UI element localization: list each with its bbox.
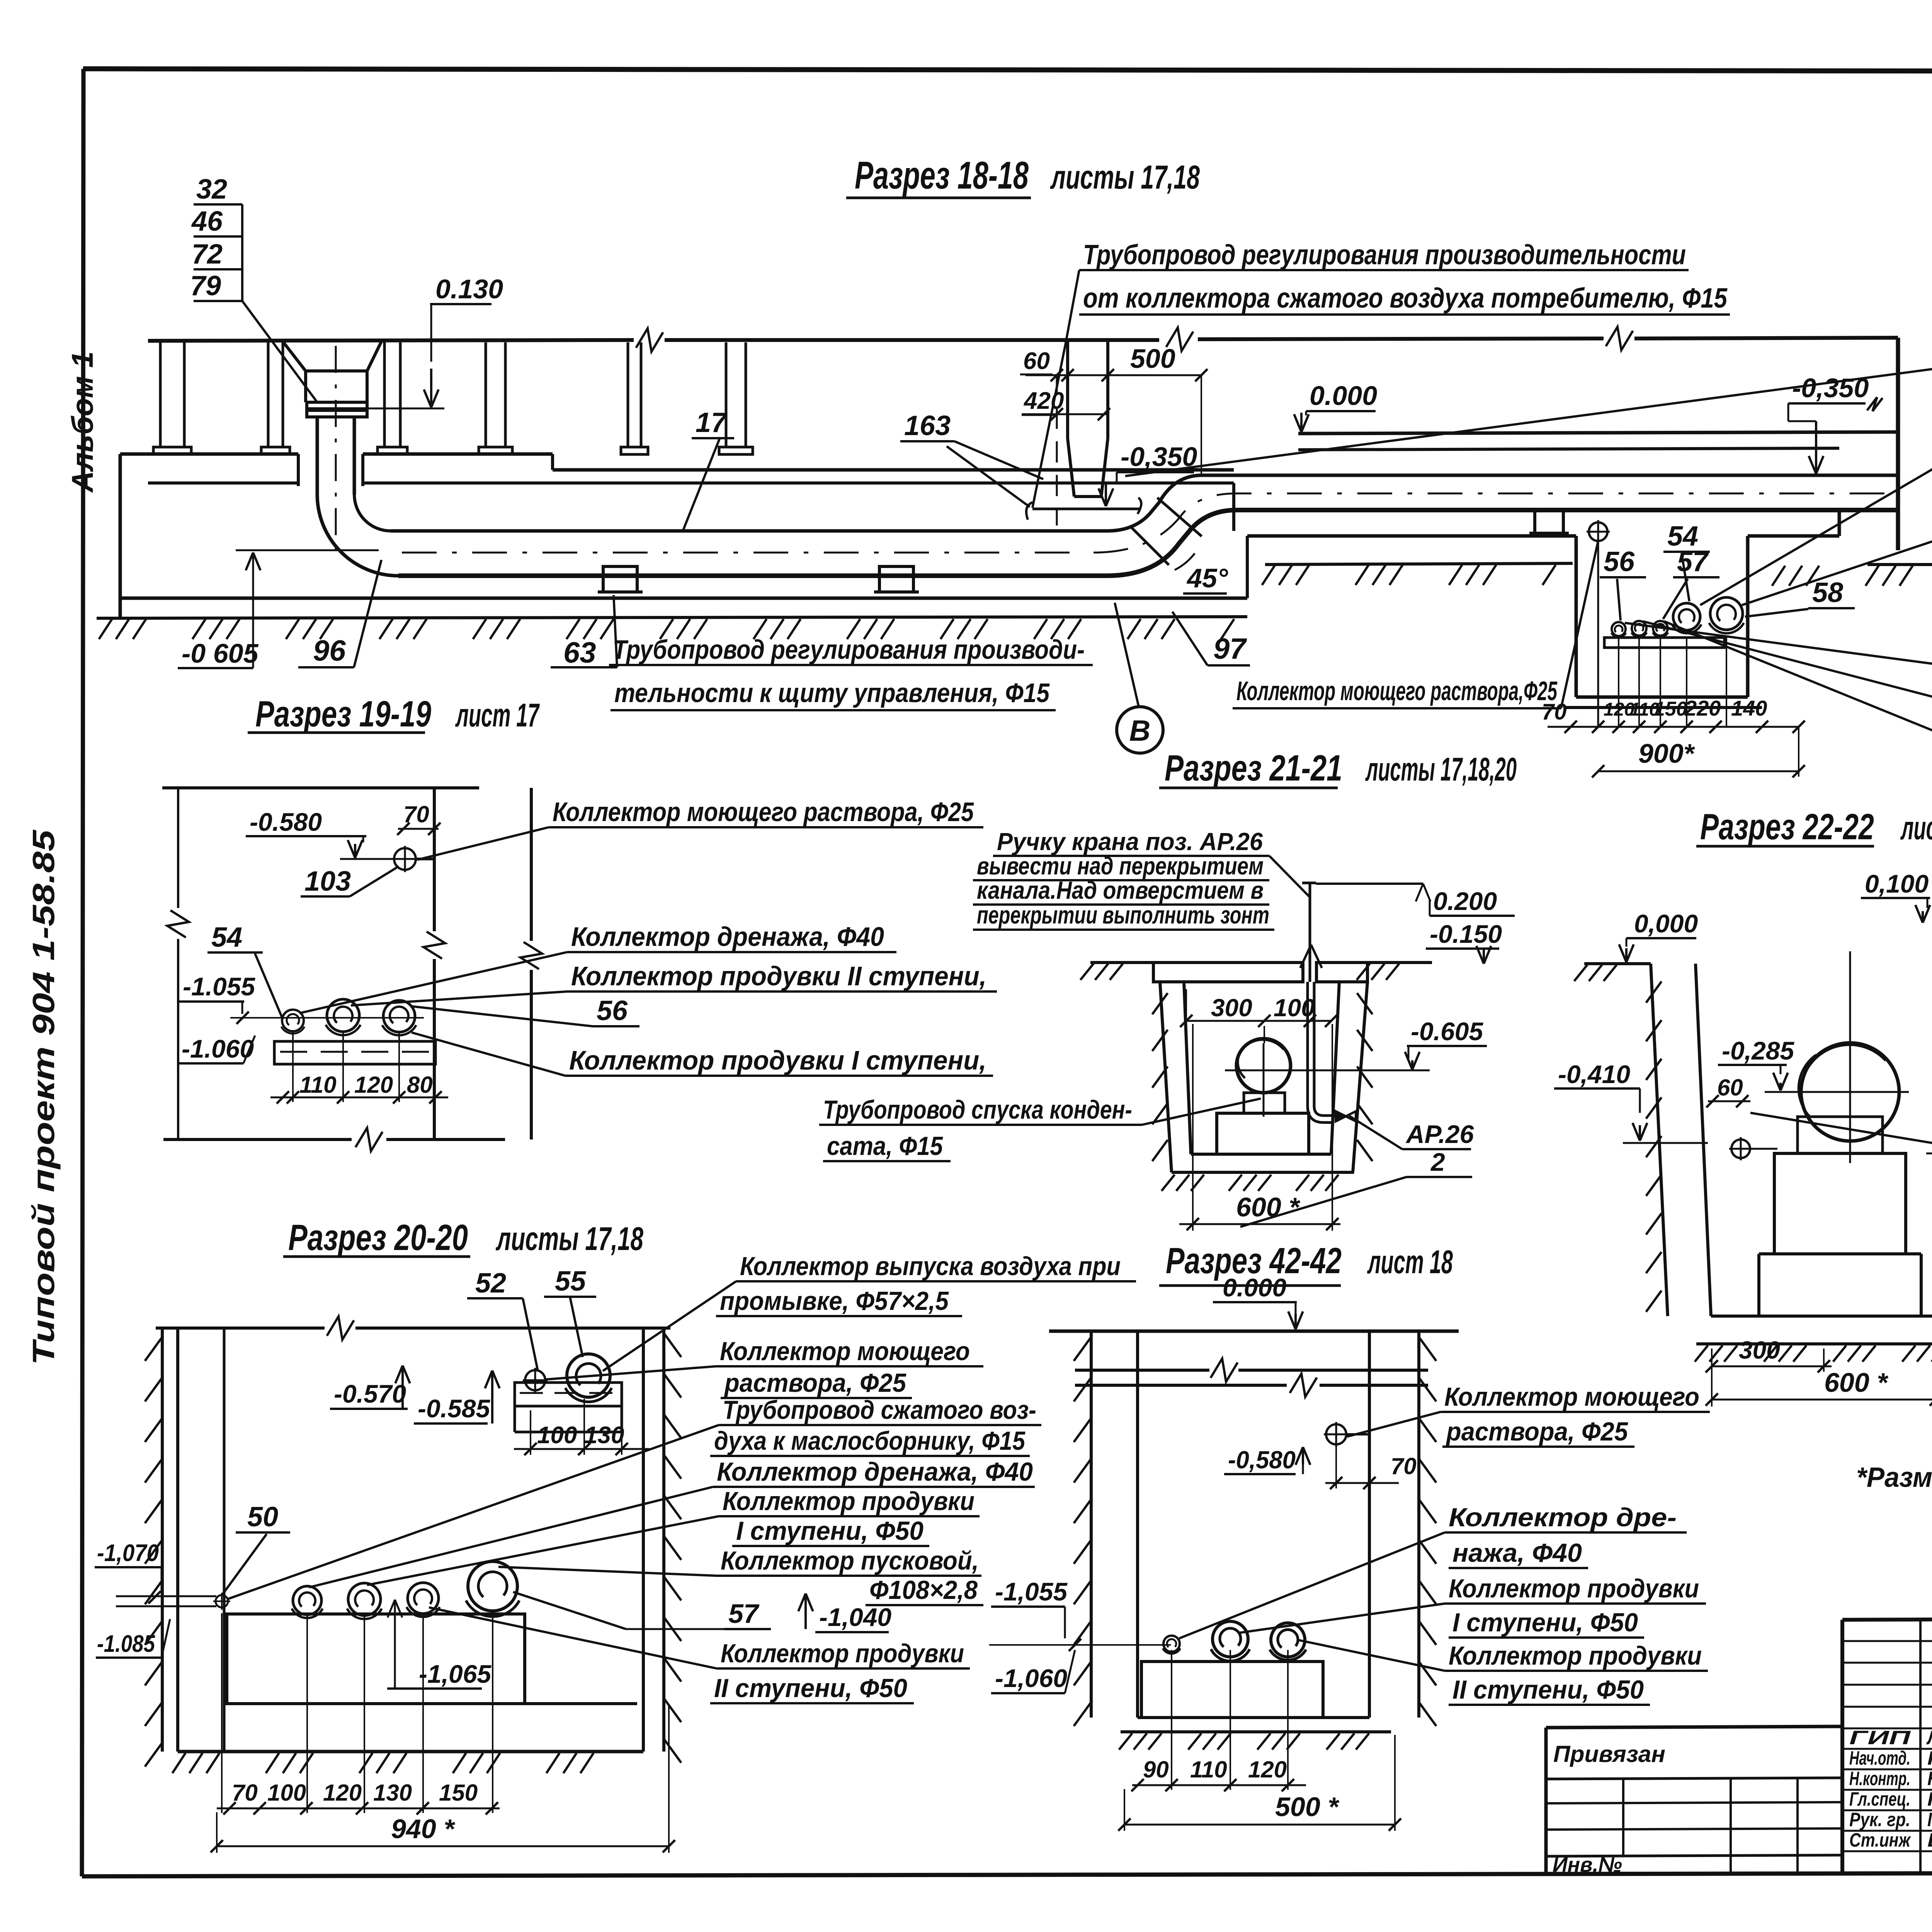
svg-text:420: 420 (1023, 388, 1064, 414)
svg-text:-0.580: -0.580 (250, 808, 322, 836)
svg-text:100: 100 (1274, 994, 1315, 1022)
svg-text:Привязан: Привязан (1553, 1741, 1665, 1767)
svg-text:Инв.№: Инв.№ (1553, 1853, 1622, 1876)
svg-text:духа к маслосборнику, Ф15: духа к маслосборнику, Ф15 (714, 1426, 1026, 1456)
collector pipes in pit (1604, 638, 1725, 648)
svg-text:-1.055: -1.055 (183, 972, 255, 1001)
19-19 washing collector circle (394, 848, 416, 870)
upper hall floor 0.000 slab (1298, 432, 1898, 434)
20-20 dim rows (221, 1613, 223, 1813)
svg-text:Разрез 19-19: Разрез 19-19 (255, 694, 431, 735)
svg-text:*Размеры для справок.: *Размеры для справок. (1856, 1462, 1932, 1493)
svg-text:-1,040: -1,040 (819, 1603, 891, 1631)
19-19 dim row 110 120 80 (292, 1032, 294, 1102)
dim 60 500 420 at intake (1026, 374, 1201, 376)
svg-text:90: 90 (1143, 1757, 1169, 1782)
svg-text:нажа, Ф40: нажа, Ф40 (1452, 1538, 1582, 1568)
42-42 washing collector circle (1326, 1424, 1346, 1444)
svg-text:II ступени, Ф50: II ступени, Ф50 (1452, 1675, 1644, 1704)
svg-text:46: 46 (191, 206, 223, 237)
svg-text:вывести над перекрытием: вывести над перекрытием (977, 852, 1264, 880)
svg-text:Коллектор дренажа, Ф40: Коллектор дренажа, Ф40 (717, 1457, 1033, 1486)
svg-text:Коган: Коган (1927, 1747, 1932, 1769)
svg-text:ГИП: ГИП (1849, 1727, 1911, 1748)
svg-text:100: 100 (267, 1780, 306, 1806)
svg-text:Трубопровод регулирования прои: Трубопровод регулирования производительн… (1083, 240, 1686, 270)
svg-text:103: 103 (304, 866, 351, 897)
svg-text:листы 17,18,20: листы 17,18,20 (1365, 751, 1517, 788)
pipe 45 deg riser bend (1107, 475, 1897, 531)
title block outer (1842, 1617, 1932, 1620)
trench bottom left with ground hatch (120, 597, 1247, 600)
21-21 dim 600 (1179, 1223, 1340, 1225)
svg-text:листы 17,18: листы 17,18 (1050, 159, 1200, 196)
svg-text:Коллектор продувки I ступени,: Коллектор продувки I ступени, (569, 1045, 986, 1075)
svg-text:АР.26: АР.26 (1405, 1120, 1474, 1148)
svg-text:Новицкая: Новицкая (1927, 1768, 1932, 1789)
svg-text:Коллектор продувки II ступени,: Коллектор продувки II ступени, (571, 961, 986, 991)
42-42 level line to elevations (989, 1644, 1090, 1646)
svg-text:листы 17,18: листы 17,18 (495, 1221, 643, 1257)
svg-text:56: 56 (597, 995, 628, 1026)
svg-text:Разрез 18-18: Разрез 18-18 (855, 154, 1029, 197)
svg-text:63: 63 (563, 636, 596, 669)
svg-text:-0.150: -0.150 (1430, 920, 1502, 948)
svg-text:Разрез 21-21: Разрез 21-21 (1165, 748, 1342, 789)
svg-text:120: 120 (1248, 1757, 1287, 1782)
svg-text:-0 605: -0 605 (182, 638, 259, 668)
svg-text:сата, Ф15: сата, Ф15 (827, 1131, 943, 1161)
pipe elbow to horizontal run (317, 495, 398, 576)
svg-text:лист 17: лист 17 (455, 697, 540, 734)
svg-text:Коллектор пусковой,: Коллектор пусковой, (721, 1546, 979, 1575)
svg-text:58: 58 (1812, 577, 1843, 608)
svg-text:листы 17,18: листы 17,18 (1900, 810, 1932, 847)
svg-text:17: 17 (696, 407, 728, 438)
20-20 pit walls (161, 1328, 164, 1752)
svg-text:Трубопровод сжатого воз-: Трубопровод сжатого воз- (723, 1395, 1036, 1425)
svg-text:В: В (1129, 714, 1151, 747)
22-22 pedestal (1798, 1117, 1883, 1153)
svg-text:I ступени, Ф50: I ступени, Ф50 (736, 1516, 923, 1546)
svg-text:70: 70 (1391, 1453, 1417, 1479)
42-42 walls (1090, 1331, 1093, 1718)
pit dimension row (1548, 726, 1799, 728)
22-22 bottom dims (1712, 1366, 1832, 1367)
drawing frame border (83, 69, 1932, 72)
svg-text:от коллектора сжатого воздуха: от коллектора сжатого воздуха потребител… (1083, 283, 1728, 314)
svg-text:0.000: 0.000 (1310, 381, 1377, 411)
svg-text:Н.контр.: Н.контр. (1849, 1768, 1910, 1789)
22-22 small collector circle (1731, 1139, 1750, 1158)
svg-text:раствора, Ф25: раствора, Ф25 (1446, 1417, 1628, 1446)
svg-text:54: 54 (211, 922, 242, 953)
intake pipe stub hanging (1066, 342, 1069, 439)
svg-text:-1,060: -1,060 (995, 1664, 1067, 1692)
svg-text:0,000: 0,000 (1634, 909, 1698, 938)
svg-text:-0,410: -0,410 (1558, 1060, 1630, 1088)
19-19 collector pipes (282, 1010, 304, 1031)
svg-text:110: 110 (1190, 1757, 1227, 1782)
19-19 structure (162, 786, 479, 789)
svg-text:130: 130 (373, 1780, 412, 1806)
svg-text:-0.570: -0.570 (334, 1379, 406, 1408)
svg-text:Коллектор выпуска воздуха при: Коллектор выпуска воздуха при (740, 1252, 1121, 1281)
svg-text:тельности к щиту управления, Ф: тельности к щиту управления, Ф15 (614, 678, 1050, 708)
svg-text:Коллектор продувки: Коллектор продувки (721, 1639, 964, 1668)
machine floor slab (120, 452, 298, 456)
svg-text:-0,285: -0,285 (1722, 1036, 1794, 1065)
svg-text:300: 300 (1739, 1336, 1780, 1364)
svg-text:Ст.инж: Ст.инж (1849, 1829, 1911, 1851)
svg-text:Коллектор продувки: Коллектор продувки (723, 1486, 975, 1516)
svg-text:Трубопровод спуска конден-: Трубопровод спуска конден- (823, 1095, 1132, 1124)
svg-text:-1,070: -1,070 (97, 1540, 159, 1566)
svg-text:-1,065: -1,065 (419, 1660, 492, 1688)
svg-text:45°: 45° (1186, 563, 1228, 593)
svg-text:Разрез 22-22: Разрез 22-22 (1700, 806, 1874, 847)
svg-text:140: 140 (1731, 696, 1767, 720)
svg-text:96: 96 (313, 634, 346, 667)
svg-text:-0.605: -0.605 (1411, 1017, 1483, 1046)
svg-text:80: 80 (407, 1072, 433, 1098)
svg-text:100: 100 (537, 1422, 577, 1449)
pipe 17 lower run (391, 529, 1107, 533)
svg-text:50: 50 (247, 1502, 278, 1532)
svg-text:Гл.спец.: Гл.спец. (1849, 1788, 1910, 1810)
svg-text:Коллектор моющего раствора,Ф25: Коллектор моющего раствора,Ф25 (1236, 676, 1558, 706)
22-22 pit (1584, 962, 1651, 965)
svg-text:-1.085: -1.085 (97, 1631, 155, 1657)
svg-text:Альбом 1: Альбом 1 (65, 351, 99, 493)
svg-text:Коллектор моющего: Коллектор моющего (1444, 1382, 1699, 1412)
22-22 big pipe circle (1801, 1043, 1899, 1141)
svg-text:лист 18: лист 18 (1367, 1244, 1453, 1281)
21-21 pit (1090, 961, 1153, 964)
svg-text:Разрез 20-20: Разрез 20-20 (288, 1217, 468, 1258)
svg-text:940 *: 940 * (391, 1814, 455, 1844)
svg-text:-0.585: -0.585 (418, 1394, 490, 1423)
svg-text:900*: 900* (1638, 738, 1695, 769)
svg-text:55: 55 (555, 1266, 586, 1297)
svg-text:220: 220 (1684, 696, 1721, 720)
svg-text:600 *: 600 * (1824, 1367, 1888, 1398)
svg-text:Коллектор дренажа, Ф40: Коллектор дренажа, Ф40 (571, 922, 884, 952)
svg-text:110: 110 (299, 1072, 337, 1098)
pipe supports (603, 566, 637, 592)
svg-text:60: 60 (1023, 348, 1050, 374)
svg-text:163: 163 (904, 410, 951, 441)
node B circle (1117, 707, 1163, 753)
svg-text:60: 60 (1717, 1075, 1743, 1100)
svg-text:Типовой проект 904 1-58.85: Типовой проект 904 1-58.85 (26, 829, 61, 1365)
svg-text:0.000: 0.000 (1223, 1273, 1286, 1302)
svg-text:Преснов: Преснов (1927, 1788, 1932, 1810)
svg-text:Леонов: Леонов (1926, 1727, 1932, 1748)
ceiling line (148, 340, 634, 341)
svg-text:500 *: 500 * (1275, 1792, 1339, 1822)
columns with pedestals (159, 342, 162, 447)
intake funnel and vertical pipe with flange (283, 342, 306, 371)
svg-text:Коллектор дре-: Коллектор дре- (1449, 1503, 1677, 1532)
svg-text:Ф108×2,8: Ф108×2,8 (869, 1575, 978, 1605)
right pit with collectors (1575, 536, 1578, 697)
svg-text:150: 150 (1654, 698, 1687, 720)
svg-text:Шась: Шась (1927, 1829, 1932, 1851)
svg-text:раствора, Ф25: раствора, Ф25 (724, 1368, 906, 1398)
21-21 dims right (1316, 883, 1423, 885)
20-20 collector pipes row (216, 1595, 228, 1607)
svg-text:II ступени, Ф50: II ступени, Ф50 (714, 1673, 907, 1703)
svg-text:72: 72 (192, 239, 223, 270)
svg-text:Нач.отд.: Нач.отд. (1849, 1747, 1910, 1769)
svg-text:52: 52 (475, 1268, 506, 1299)
svg-text:Рук. гр.: Рук. гр. (1849, 1809, 1910, 1830)
svg-text:70: 70 (232, 1780, 258, 1806)
svg-text:перекрытии выполнить зонт: перекрытии выполнить зонт (977, 901, 1269, 929)
svg-text:0.130: 0.130 (435, 274, 503, 304)
20-20 base plate (227, 1614, 525, 1704)
svg-text:Ручку крана поз. АР.26: Ручку крана поз. АР.26 (997, 828, 1263, 855)
svg-text:70: 70 (1542, 699, 1567, 724)
svg-text:-0,580: -0,580 (1228, 1446, 1296, 1474)
svg-text:120: 120 (323, 1780, 362, 1806)
svg-text:I ступени, Ф50: I ступени, Ф50 (1452, 1608, 1638, 1637)
svg-text:300: 300 (1211, 994, 1252, 1022)
svg-text:600 *: 600 * (1236, 1192, 1300, 1222)
svg-text:Григорьян: Григорьян (1927, 1809, 1932, 1830)
svg-text:Коллектор продувки: Коллектор продувки (1449, 1574, 1699, 1603)
svg-text:57: 57 (1677, 546, 1709, 577)
title block name grid (1842, 1640, 1932, 1642)
floor step at riser (1246, 536, 1249, 598)
svg-text:150: 150 (439, 1780, 478, 1806)
privyazan table (1546, 1726, 1842, 1728)
svg-text:Коллектор моющего: Коллектор моющего (720, 1337, 970, 1366)
svg-text:-1.060: -1.060 (182, 1034, 254, 1063)
svg-text:2: 2 (1430, 1148, 1445, 1176)
20-20 shelf with collectors (515, 1383, 622, 1406)
svg-text:промывке, Ф57×2,5: промывке, Ф57×2,5 (720, 1286, 949, 1316)
svg-text:0.200: 0.200 (1433, 887, 1497, 915)
svg-text:56: 56 (1604, 546, 1635, 577)
42-42 ground and slab (1049, 1330, 1459, 1333)
42-42 collector pipes (1163, 1636, 1180, 1652)
42-42 dim rows (1171, 1650, 1172, 1790)
svg-text:0,100: 0,100 (1865, 869, 1929, 898)
svg-text:500: 500 (1130, 344, 1175, 374)
svg-text:Коллектор моющего раствора, Ф2: Коллектор моющего раствора, Ф25 (553, 797, 974, 827)
svg-text:Трубопровод регулирования прои: Трубопровод регулирования производи- (613, 634, 1085, 665)
21-21 pipe circle and pedestal (1236, 1039, 1291, 1093)
svg-text:79: 79 (190, 270, 221, 301)
svg-text:-1,055: -1,055 (995, 1577, 1068, 1606)
svg-text:97: 97 (1213, 633, 1247, 665)
svg-text:Коллектор продувки: Коллектор продувки (1449, 1641, 1702, 1670)
svg-text:канала.Над отверстием в: канала.Над отверстием в (977, 876, 1264, 904)
21-21 riser pipe with arrow (1309, 883, 1311, 982)
svg-text:57: 57 (728, 1599, 760, 1629)
svg-text:32: 32 (196, 174, 227, 205)
right label stack leaders (1125, 365, 1932, 476)
svg-text:120: 120 (354, 1072, 393, 1098)
svg-text:-0,350: -0,350 (1792, 373, 1869, 403)
